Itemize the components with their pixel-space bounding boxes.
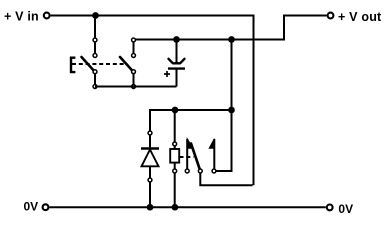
svg-text:+ V in: + V in [4, 9, 39, 23]
node latch top [228, 36, 235, 43]
wire common B to rail [200, 174, 252, 186]
wire line2 [135, 39, 285, 41]
node diode-rail [147, 204, 154, 211]
wire coil top drop [174, 110, 176, 142]
svg-text:0V: 0V [338, 202, 353, 216]
switch S1 pole2 [120, 38, 135, 88]
wire latch vertical [217, 40, 232, 172]
capacitor C1 [168, 40, 185, 87]
svg-text:0V: 0V [24, 200, 39, 214]
wire line3 [150, 110, 232, 131]
terminal + V out [328, 13, 334, 19]
dashed link S1 [72, 63, 128, 65]
wire pole1 drop [94, 16, 96, 38]
wire bottom rail [49, 206, 325, 208]
relay contact: stub A [186, 139, 188, 169]
relay contact: flag A [187, 139, 193, 149]
terminal + V in [44, 13, 50, 19]
node line3 right [228, 107, 235, 114]
relay coil RL1 [170, 142, 179, 207]
node cap top [173, 36, 180, 43]
terminal 0V left [43, 204, 49, 210]
terminal 0V right [327, 205, 333, 211]
wire top rail [51, 16, 254, 186]
node coil-rail [172, 204, 179, 211]
relay contact: flag C [209, 139, 214, 149]
relay contact: stub C [213, 139, 215, 169]
node junction on top rail [92, 12, 99, 19]
switch S1 pole1 [82, 38, 97, 88]
relay contact: lever [191, 144, 200, 171]
switch actuator bracket [71, 58, 75, 72]
relay contact pins [185, 169, 216, 173]
svg-text:+ V out: + V out [338, 10, 382, 24]
diode D1 [141, 131, 159, 207]
wire V out lead [284, 16, 327, 40]
label cap polarity + [164, 71, 170, 77]
wire S1 bottom [95, 86, 177, 88]
node coil top [172, 107, 179, 114]
dashed link relay [180, 156, 194, 158]
